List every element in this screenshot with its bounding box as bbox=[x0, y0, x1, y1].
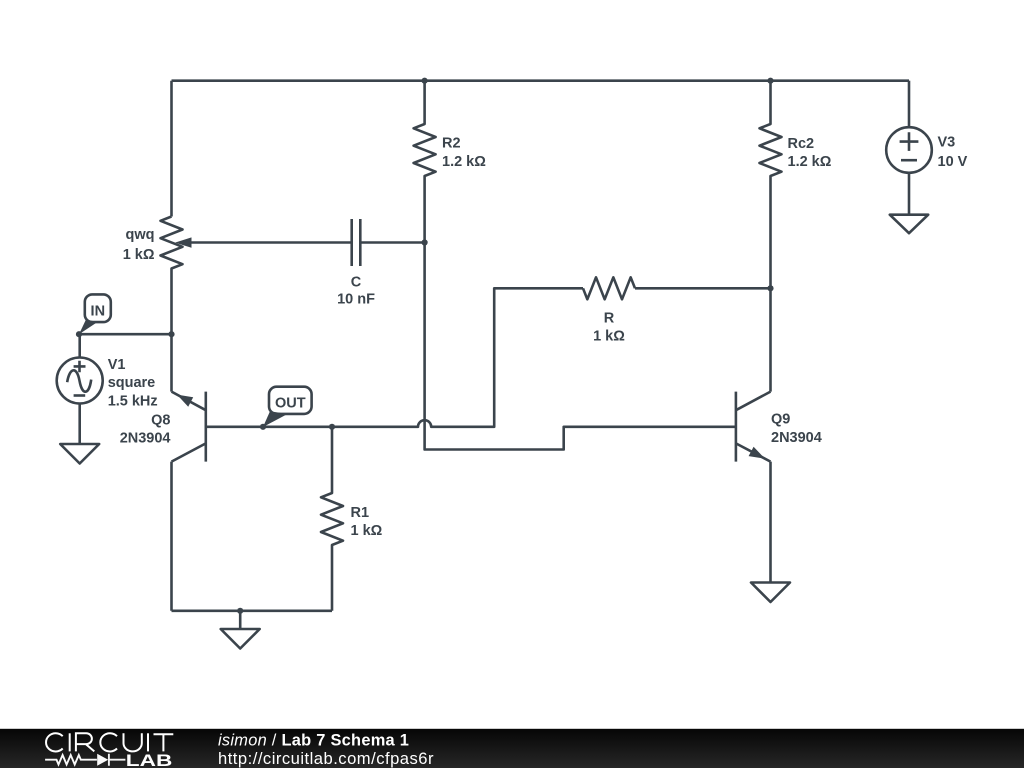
wire top rail bbox=[172, 79, 910, 82]
svg-text:R2: R2 bbox=[442, 136, 461, 152]
transistor Q8 bbox=[120, 392, 206, 462]
voltage source V1 bbox=[57, 334, 158, 409]
svg-text:1.2 kΩ: 1.2 kΩ bbox=[442, 154, 486, 170]
node C/R2 junction bbox=[422, 239, 428, 245]
ground under V3 bbox=[890, 215, 928, 234]
flag IN bbox=[79, 294, 111, 334]
resistor Rc2 bbox=[760, 81, 832, 289]
node IN/left column junction bbox=[168, 331, 174, 337]
svg-text:1 kΩ: 1 kΩ bbox=[123, 247, 155, 263]
capacitor C bbox=[337, 219, 375, 308]
wire capacitor to R2 column bbox=[360, 241, 424, 244]
wire Q8 base / OUT row with hop over R2 column bbox=[206, 288, 583, 427]
svg-text:Q9: Q9 bbox=[771, 412, 790, 428]
svg-text:LAB: LAB bbox=[126, 752, 173, 768]
svg-text:1 kΩ: 1 kΩ bbox=[593, 328, 625, 344]
wire R right lead bbox=[635, 287, 771, 290]
svg-text:2N3904: 2N3904 bbox=[771, 430, 822, 446]
ground bottom bbox=[221, 611, 260, 649]
svg-text:Rc2: Rc2 bbox=[788, 136, 815, 152]
node R/Rc2/Q9 junction bbox=[767, 285, 773, 291]
footer bar bbox=[0, 729, 1024, 768]
svg-text:qwq: qwq bbox=[126, 227, 155, 243]
flag OUT bbox=[263, 387, 312, 427]
node rail/Rc2 junction bbox=[767, 78, 773, 84]
node OUT bbox=[260, 424, 266, 430]
wire wiper to capacitor bbox=[192, 241, 352, 244]
wire rail left drop to potentiometer bbox=[170, 81, 173, 217]
wire Q8 emitter riser bbox=[170, 334, 173, 391]
wire bottom row bbox=[172, 609, 333, 612]
wire R2 column down and detour to Q9 base bbox=[425, 243, 736, 450]
wire Q9 collector riser bbox=[769, 288, 772, 391]
svg-text:IN: IN bbox=[91, 304, 106, 320]
svg-text:isimon / Lab 7 Schema 1: isimon / Lab 7 Schema 1 bbox=[218, 731, 409, 749]
node IN bbox=[76, 331, 82, 337]
svg-text:10 nF: 10 nF bbox=[337, 292, 375, 308]
svg-text:10 V: 10 V bbox=[938, 154, 968, 170]
wire V1 to ground bbox=[78, 404, 81, 445]
wire Q8 collector drop bbox=[170, 462, 173, 611]
node R1 top bbox=[329, 424, 335, 430]
svg-text:Q8: Q8 bbox=[151, 413, 170, 429]
transistor Q9 bbox=[736, 392, 822, 462]
wire Q9 emitter to ground bbox=[769, 462, 772, 583]
wire IN row bbox=[79, 333, 172, 336]
svg-text:OUT: OUT bbox=[275, 396, 306, 412]
resistor R bbox=[583, 277, 635, 344]
footer CircuitLab logo bbox=[46, 733, 173, 751]
svg-text:1.5 kHz: 1.5 kHz bbox=[108, 393, 158, 409]
node rail/R2 junction bbox=[422, 78, 428, 84]
svg-text:R1: R1 bbox=[351, 505, 370, 521]
svg-text:V3: V3 bbox=[938, 135, 956, 151]
svg-text:http://circuitlab.com/cfpas6r: http://circuitlab.com/cfpas6r bbox=[218, 749, 434, 768]
voltage source V3 bbox=[886, 127, 967, 173]
potentiometer qwq bbox=[123, 217, 192, 335]
resistor R2 bbox=[414, 81, 487, 243]
svg-text:C: C bbox=[351, 275, 362, 291]
svg-text:R: R bbox=[604, 310, 615, 326]
svg-text:2N3904: 2N3904 bbox=[120, 431, 171, 447]
svg-text:square: square bbox=[108, 375, 156, 391]
ground under Q9 bbox=[751, 583, 790, 603]
ground under V1 bbox=[60, 444, 99, 464]
node bottom ground junction bbox=[237, 608, 243, 614]
resistor R1 bbox=[321, 427, 383, 611]
svg-text:V1: V1 bbox=[108, 357, 126, 373]
svg-text:1.2 kΩ: 1.2 kΩ bbox=[788, 154, 832, 170]
wire V3 to ground bbox=[908, 173, 911, 215]
wire rail right drop to V3 bbox=[908, 81, 911, 128]
svg-text:1 kΩ: 1 kΩ bbox=[351, 523, 383, 539]
